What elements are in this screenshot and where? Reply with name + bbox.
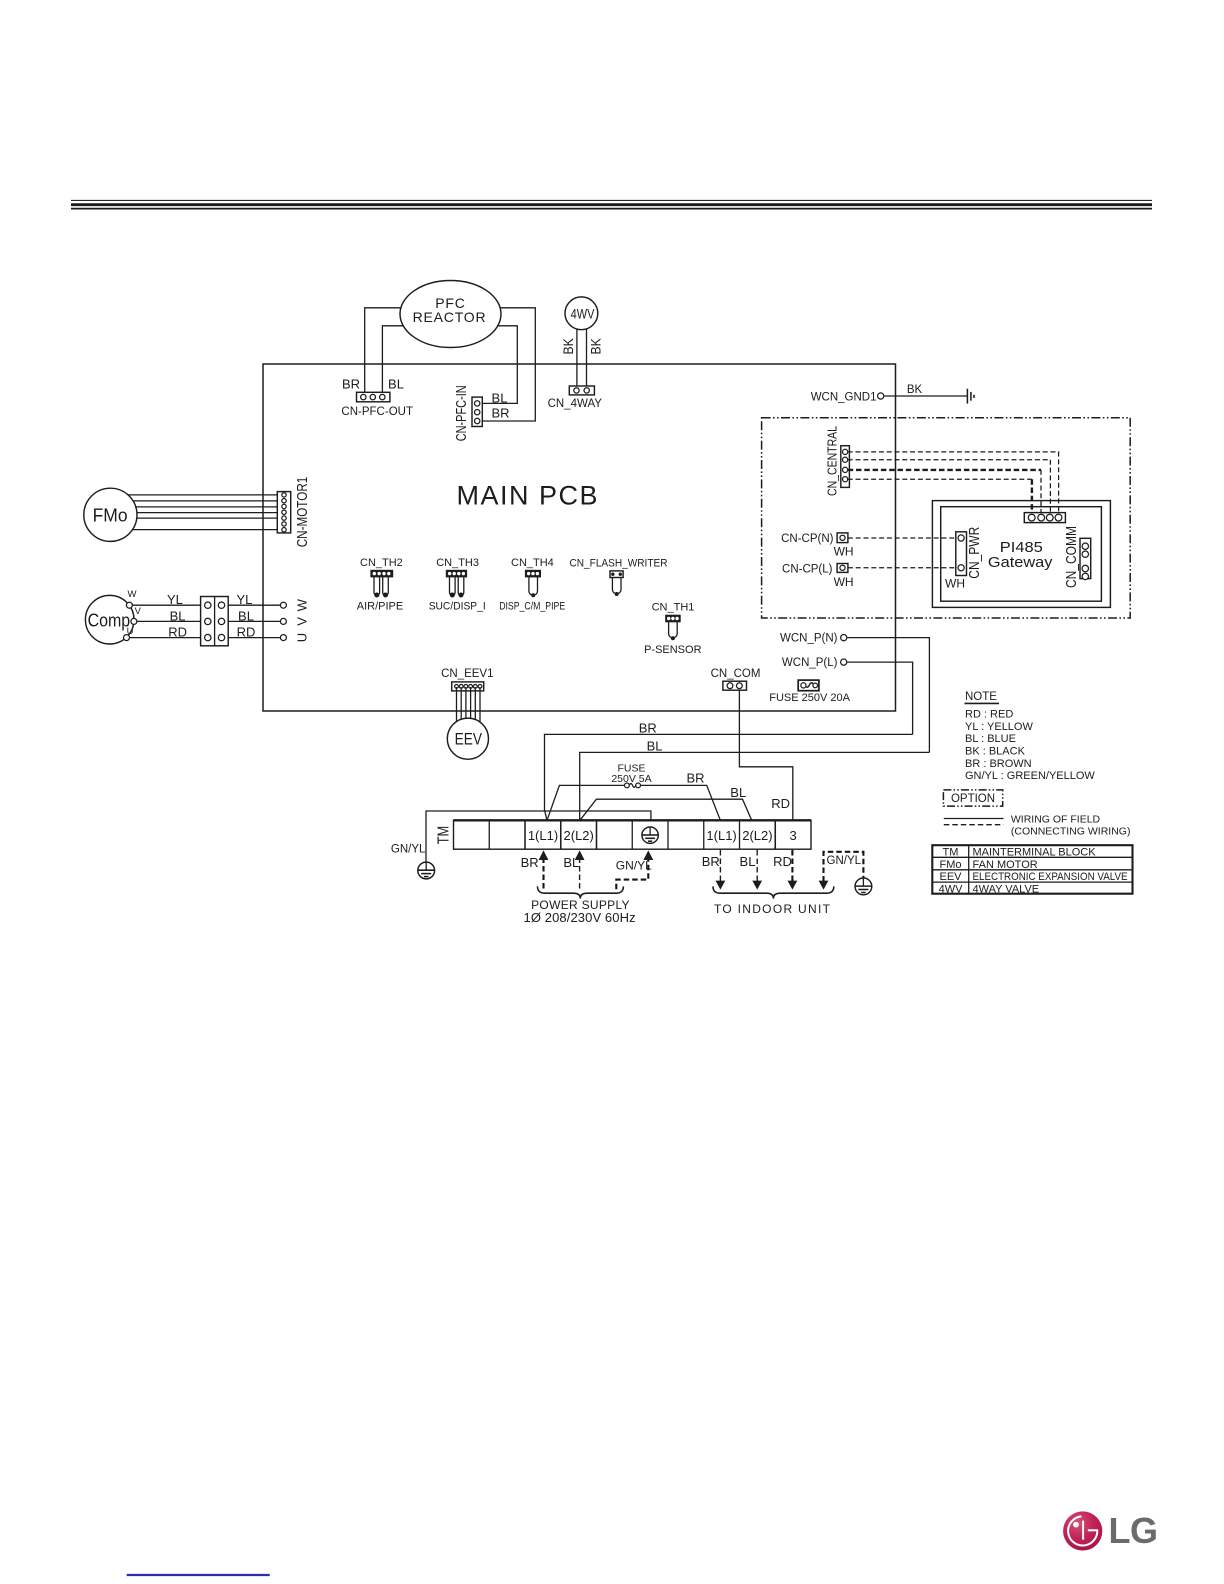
svg-text:BL: BL xyxy=(492,390,508,405)
svg-text:CN_TH3: CN_TH3 xyxy=(436,557,479,569)
brace to indoor unit xyxy=(713,886,834,898)
connector CN_COM xyxy=(711,668,761,690)
wire PFC reactor to CN-PFC-OUT pin3 (BL) xyxy=(382,326,403,393)
connector CN_TH4 xyxy=(511,557,554,577)
svg-text:4WAY VALVE: 4WAY VALVE xyxy=(973,883,1040,895)
thermistor probe SUC xyxy=(450,577,456,598)
indoor BL arrow xyxy=(740,850,763,890)
svg-text:BL: BL xyxy=(740,854,756,869)
wire WCN_GND1 to chassis ground (BK) xyxy=(884,395,968,397)
SECTION: gateway xyxy=(711,418,1131,753)
svg-text:GN/YL: GN/YL xyxy=(391,843,426,855)
svg-text:U: U xyxy=(127,626,134,637)
svg-text:MAINTERMINAL BLOCK: MAINTERMINAL BLOCK xyxy=(973,847,1097,859)
svg-text:YL: YL xyxy=(236,592,252,607)
svg-text:FUSE 250V 20A: FUSE 250V 20A xyxy=(769,692,850,704)
svg-text:WCN_P(L): WCN_P(L) xyxy=(782,657,838,669)
svg-text:BK: BK xyxy=(560,338,576,355)
power supply GN/YL arrow xyxy=(616,850,653,889)
svg-text:EEV: EEV xyxy=(455,730,483,749)
svg-text:WH: WH xyxy=(834,544,854,558)
svg-text:4WV: 4WV xyxy=(939,883,964,895)
wire FMo pin1 xyxy=(128,494,282,496)
svg-text:CN_FLASH_WRITER: CN_FLASH_WRITER xyxy=(570,558,668,570)
connector CN_TH1 xyxy=(652,602,695,622)
thermistor probe DISP_C/M_PIPE xyxy=(529,577,538,597)
wire CN-CP(N) to CN_PWR (dashed WH) xyxy=(848,537,956,539)
svg-text:YL : YELLOW: YL : YELLOW xyxy=(965,721,1033,733)
fuse FUSE 250V 20A xyxy=(769,680,850,704)
wire CN_CENTRAL pin1 to gateway (dashed) xyxy=(848,452,1059,513)
header rule line 2 xyxy=(71,203,1152,206)
svg-text:ELECTRONIC EXPANSION VALVE: ELECTRONIC EXPANSION VALVE xyxy=(973,871,1128,883)
svg-text:CN-PFC-IN: CN-PFC-IN xyxy=(453,385,470,441)
gateway top connector xyxy=(1024,513,1065,523)
Comp terminal V xyxy=(131,618,137,624)
PFC reactor ellipse xyxy=(400,281,501,348)
svg-text:FAN MOTOR: FAN MOTOR xyxy=(973,859,1038,871)
connector WCN_GND1 xyxy=(811,391,884,403)
connector CN_PWR xyxy=(945,527,983,591)
wire CN-CP(L) to CN_PWR (dashed WH) xyxy=(848,567,956,569)
svg-text:LG: LG xyxy=(1109,1510,1158,1551)
thermistor probe DISP xyxy=(458,577,464,598)
svg-text:1Ø 208/230V 60Hz: 1Ø 208/230V 60Hz xyxy=(524,910,636,925)
svg-text:WH: WH xyxy=(945,577,965,591)
wire Comp U (RD) xyxy=(130,637,281,639)
svg-text:GN/YL: GN/YL xyxy=(616,859,652,873)
wire FMo pin5 xyxy=(137,517,282,519)
fuse FUSE 250V 5A branch xyxy=(547,763,720,821)
svg-text:WH: WH xyxy=(834,575,854,589)
svg-text:P-SENSOR: P-SENSOR xyxy=(644,644,702,656)
compressor Comp xyxy=(85,595,134,644)
SECTION: legend xyxy=(932,691,1132,895)
wire WCN_P(N) to BL line xyxy=(847,638,930,753)
svg-text:CN-CP(L): CN-CP(L) xyxy=(782,564,833,576)
indoor RD arrow xyxy=(773,850,797,890)
SECTION: left components xyxy=(84,477,311,646)
wires CN_EEV1 to EEV xyxy=(457,687,481,725)
svg-text:CN_TH4: CN_TH4 xyxy=(511,557,554,569)
svg-text:GN/YL: GN/YL xyxy=(827,855,862,867)
wire WCN_P(L) to BR line xyxy=(847,662,913,734)
svg-text:MAIN PCB: MAIN PCB xyxy=(457,481,600,511)
svg-text:FMo: FMo xyxy=(93,504,128,525)
svg-text:BK : BLACK: BK : BLACK xyxy=(965,746,1026,758)
header rule line 1 xyxy=(71,199,1152,201)
wire BR line to terminal 1(L1) xyxy=(545,734,913,820)
svg-text:BL: BL xyxy=(647,739,663,754)
svg-text:3: 3 xyxy=(789,828,796,843)
brace power supply xyxy=(538,886,624,898)
OPTION dash-dot enclosure xyxy=(762,418,1131,618)
wire RD from CN_COM to terminal 3 xyxy=(739,690,792,820)
connector CN-CP(L) xyxy=(782,564,854,589)
header rule line 3 xyxy=(71,208,1152,210)
node U on PCB xyxy=(280,635,286,641)
power supply BR arrow xyxy=(521,850,549,888)
wire CN_CENTRAL pin2 to gateway (dashed) xyxy=(848,460,1051,513)
svg-text:RD : RED: RD : RED xyxy=(965,709,1013,721)
svg-text:CN-MOTOR1: CN-MOTOR1 xyxy=(294,477,311,548)
svg-text:NOTE: NOTE xyxy=(965,691,997,703)
svg-text:CN_PWR: CN_PWR xyxy=(966,527,983,579)
LG logo emblem xyxy=(1063,1511,1102,1550)
electronic expansion valve EEV xyxy=(447,718,488,759)
svg-text:BR: BR xyxy=(702,854,720,869)
svg-text:BL: BL xyxy=(730,785,746,800)
wire PFC reactor to CN-PFC-IN pin1 (BL) xyxy=(482,326,517,404)
svg-text:YL: YL xyxy=(167,592,183,607)
SECTION: sensors xyxy=(357,557,702,759)
svg-text:2(L2): 2(L2) xyxy=(742,828,772,843)
svg-text:BL : BLUE: BL : BLUE xyxy=(965,733,1016,745)
svg-text:DISP_C/M_PIPE: DISP_C/M_PIPE xyxy=(499,601,565,613)
thermistor probe AIR xyxy=(374,577,380,598)
svg-text:Comp: Comp xyxy=(88,609,131,630)
svg-text:W: W xyxy=(295,598,310,611)
footer link line xyxy=(127,1574,270,1576)
abbreviation table xyxy=(932,845,1132,895)
wire 4WV to CN_4WAY pin2 (BK) xyxy=(586,329,588,386)
fan motor FMo xyxy=(84,488,137,541)
svg-text:BK: BK xyxy=(587,338,603,355)
wire earth link TM to external ground xyxy=(426,811,651,862)
connector WCN_P(L) xyxy=(782,657,847,669)
connector CN-PFC-IN xyxy=(453,385,510,441)
svg-text:CN_COMM: CN_COMM xyxy=(1063,526,1080,588)
svg-text:BR: BR xyxy=(639,721,657,736)
4-way valve 4WV xyxy=(565,297,598,330)
connector CN-MOTOR1 xyxy=(277,477,311,548)
connector CN_COMM xyxy=(1063,526,1091,588)
wire Comp W (YL) xyxy=(132,604,280,606)
connector CN_EEV1 xyxy=(441,668,493,691)
wire 4WV to CN_4WAY pin1 (BK) xyxy=(576,329,578,386)
connector CN_TH2 xyxy=(360,557,403,577)
NOTE heading xyxy=(965,691,1000,703)
svg-text:AIR/PIPE: AIR/PIPE xyxy=(357,601,403,613)
svg-text:BL: BL xyxy=(170,608,186,623)
indoor GN/YL arrow and earth xyxy=(819,852,864,890)
connector CN-PFC-OUT xyxy=(341,377,413,419)
svg-text:GN/YL : GREEN/YELLOW: GN/YL : GREEN/YELLOW xyxy=(965,770,1095,782)
flash writer probe xyxy=(612,578,621,597)
svg-text:TM: TM xyxy=(436,826,453,845)
OPTION legend box xyxy=(943,790,1002,806)
svg-text:FMo: FMo xyxy=(940,859,962,871)
wire BL line to terminal 2(L2) xyxy=(580,752,930,820)
svg-text:RD: RD xyxy=(771,796,790,811)
wire PFC reactor to CN-PFC-IN pin3 (BR) xyxy=(482,308,535,421)
connector CN_CENTRAL xyxy=(825,426,850,496)
svg-text:BL: BL xyxy=(388,377,404,392)
svg-text:BR: BR xyxy=(342,377,360,392)
svg-text:W: W xyxy=(128,589,137,600)
wire FMo pin4 xyxy=(137,512,282,514)
connector WCN_P(N) xyxy=(780,633,847,645)
svg-text:U: U xyxy=(295,633,310,642)
wire BL branch to terminal 2(L2) right xyxy=(580,785,752,820)
svg-text:RD: RD xyxy=(168,625,187,640)
wire CN_CENTRAL pin3 to gateway (bold dashed) xyxy=(848,469,1041,471)
svg-text:TM: TM xyxy=(943,847,959,859)
svg-text:V: V xyxy=(295,617,310,626)
compressor lead connector block xyxy=(201,597,229,646)
svg-text:REACTOR: REACTOR xyxy=(413,309,487,325)
SECTION: main pcb xyxy=(263,281,974,712)
svg-text:BR: BR xyxy=(686,770,704,785)
pressure sensor probe xyxy=(669,622,678,641)
svg-text:BR: BR xyxy=(491,406,509,421)
svg-text:OPTION: OPTION xyxy=(951,793,995,805)
svg-text:BK: BK xyxy=(907,384,923,396)
svg-text:WCN_GND1: WCN_GND1 xyxy=(811,391,877,403)
Comp terminal U xyxy=(124,635,130,641)
svg-text:CN_EEV1: CN_EEV1 xyxy=(441,668,493,680)
wire FMo pin2 xyxy=(133,500,282,502)
svg-text:V: V xyxy=(135,606,142,617)
svg-text:4WV: 4WV xyxy=(571,306,595,322)
svg-text:CN_TH2: CN_TH2 xyxy=(360,557,403,569)
wire CN_CENTRAL pin4 to gateway (dashed, bold drop) xyxy=(848,478,1032,480)
earth ground symbol left xyxy=(418,862,435,879)
chassis ground symbol xyxy=(967,389,974,404)
connector CN_4WAY xyxy=(548,386,603,410)
legend dashed wire sample xyxy=(944,824,1004,826)
svg-text:WCN_P(N): WCN_P(N) xyxy=(780,633,838,645)
SECTION: logo xyxy=(127,1510,1158,1575)
SECTION: terminal xyxy=(391,690,930,925)
svg-text:250V 5A: 250V 5A xyxy=(611,773,651,785)
main terminal block TM xyxy=(436,820,812,849)
wire FMo pin3 xyxy=(136,506,282,508)
svg-text:CN-PFC-OUT: CN-PFC-OUT xyxy=(341,406,413,418)
svg-text:BR : BROWN: BR : BROWN xyxy=(965,758,1032,770)
svg-text:1(L1): 1(L1) xyxy=(528,828,558,843)
svg-text:CN-CP(N): CN-CP(N) xyxy=(781,533,834,545)
svg-text:SUC/DISP_I: SUC/DISP_I xyxy=(429,601,486,613)
node V on PCB xyxy=(280,618,286,624)
node W on PCB xyxy=(280,602,286,608)
thermistor probe PIPE xyxy=(383,577,389,598)
svg-text:2(L2): 2(L2) xyxy=(564,828,594,843)
svg-text:CN_4WAY: CN_4WAY xyxy=(548,398,603,410)
svg-text:WIRING OF FIELD: WIRING OF FIELD xyxy=(1011,814,1101,826)
svg-text:BR: BR xyxy=(521,855,539,870)
legend solid wire sample xyxy=(944,818,1004,820)
wire PFC reactor to CN-PFC-OUT pin1 (BR) xyxy=(365,308,402,393)
wire Comp V (BL) xyxy=(137,620,281,622)
power supply BL arrow xyxy=(563,850,584,888)
connector CN_FLASH_WRITER xyxy=(570,558,668,578)
svg-text:CN_COM: CN_COM xyxy=(711,668,761,680)
svg-text:RD: RD xyxy=(237,625,256,640)
main PCB board outline xyxy=(263,364,896,711)
svg-text:CN_CENTRAL: CN_CENTRAL xyxy=(825,426,840,496)
svg-text:CN_TH1: CN_TH1 xyxy=(652,602,695,614)
Comp terminal W xyxy=(126,602,132,608)
svg-text:EEV: EEV xyxy=(939,871,962,883)
svg-text:BL: BL xyxy=(238,608,254,623)
svg-text:RD: RD xyxy=(773,854,792,869)
svg-text:(CONNECTING WIRING): (CONNECTING WIRING) xyxy=(1011,826,1131,838)
indoor BR arrow xyxy=(702,850,726,890)
earth ground symbol right xyxy=(855,878,872,895)
connector CN-CP(N) xyxy=(781,533,853,558)
svg-text:1(L1): 1(L1) xyxy=(706,828,736,843)
svg-text:Gateway: Gateway xyxy=(988,554,1053,571)
connector CN_TH3 xyxy=(436,557,479,577)
PI485 Gateway module xyxy=(932,501,1110,608)
earth terminal symbol in TM xyxy=(642,827,658,843)
SECTION: header rule xyxy=(71,200,1152,208)
wire FMo pin7 xyxy=(133,529,282,531)
svg-text:TO INDOOR UNIT: TO INDOOR UNIT xyxy=(714,902,831,916)
